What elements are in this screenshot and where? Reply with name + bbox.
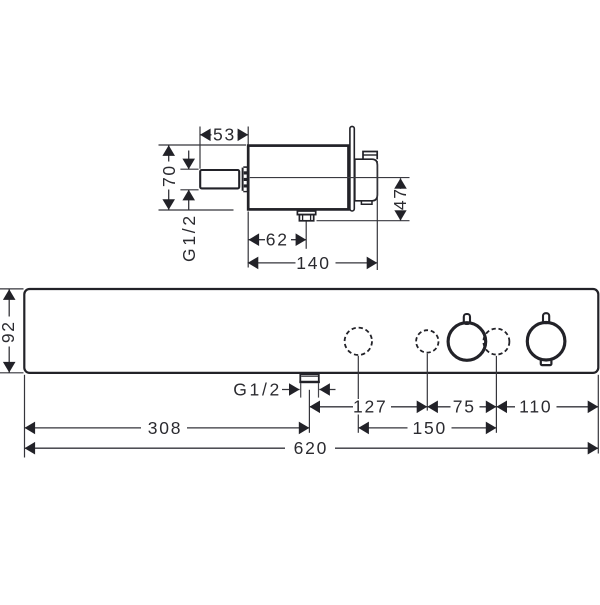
G1/2 label leader left [282,389,300,391]
fitting thread stubs [300,383,302,398]
dim line 53 [200,134,248,136]
arrow 92 top [3,289,16,300]
spout washer line [241,168,243,191]
dimension lines, top drawing [169,135,401,263]
extension lines, top drawing [159,127,378,271]
arrow 62 left [249,233,260,246]
arrow 70 bottom [162,199,175,210]
ext: fitting centerline [308,390,310,433]
G1/2 label leader right [319,389,335,391]
arrow G1/2 right [319,383,330,396]
ext: circle 2 centerline [426,354,428,411]
extension lines, bottom drawing [0,289,598,458]
ext: panel bottom left (92) [0,372,24,374]
knob 5 top tab [543,313,549,323]
dim line 70 [168,145,170,210]
arrow 127 left [309,401,320,414]
svg-text:140: 140 [296,253,331,273]
arrow 70 top [162,145,175,156]
ext: outlet fitting centerline (62 right) [305,222,307,249]
ext: 70 top reference [159,144,247,146]
wall connection block [355,159,378,201]
arrow 75 right [486,401,497,414]
bottom outlet fitting (hand shower connection, side view) [297,211,315,221]
dim row 127/75/110 [309,406,598,408]
dim line 140 [248,262,378,264]
panel (shower tablet front) [24,289,598,373]
svg-text:92: 92 [0,320,18,343]
arrow 308 right [299,422,310,435]
spout nut (notched) [243,166,247,192]
ext: panel right edge down [597,375,599,454]
arrow 620 right [588,442,599,455]
ext: wall block right (140 right) [376,161,378,270]
reference line bottom of outlet fitting [317,220,410,222]
wall connection top nut [363,152,377,160]
ext: panel left edge down [24,375,26,458]
arrow 150 right [486,422,497,435]
arrow spout bottom [182,190,195,201]
ext: circle 1 centerline [357,356,359,433]
arrow 47 top [394,178,407,189]
ext: body left edge up (53 right) [247,127,249,145]
G1/2 fitting (front view, below panel) [299,374,319,382]
spout (side view, G1/2 outlet) [200,170,239,188]
text backgrounds, bottom drawing [1,317,557,456]
knob 3 top tab [464,314,470,324]
ext: spout top short reference [180,168,198,170]
handle knob circle 4 (dashed) [483,329,509,355]
svg-text:70: 70 [159,164,179,187]
svg-text:620: 620 [294,438,329,458]
arrow 92 bottom [3,362,16,373]
dim line 150 [358,427,496,429]
knob 5 bottom tab [541,357,552,366]
svg-text:110: 110 [519,397,552,417]
arrow G1/2 left [289,383,300,396]
svg-text:127: 127 [353,397,388,417]
dim line 62 [249,239,307,241]
centerline through body [250,177,410,179]
arrow 75 left [427,401,438,414]
arrow 140 left [248,257,259,270]
ext: body left edge down (62/140 left) [247,212,249,268]
arrow 127 right [417,401,428,414]
handle knob circle 2 (dashed) [416,330,438,352]
arrow 53 left [200,129,211,142]
body (mixer housing, side view) [248,146,348,210]
handle knob circle 1 (dashed) [345,328,372,355]
arrow 62 right [296,233,307,246]
control knob circle 3 (solid) [448,323,486,361]
dimension lines, bottom drawing [9,289,598,448]
svg-text:G1/2: G1/2 [233,379,282,399]
control knob circle 5 (solid) [527,322,565,360]
text backgrounds, top drawing [161,127,408,271]
arrowheads, bottom drawing [3,289,598,454]
wall plate (escutcheon edge-on) [350,126,354,211]
arrow 620 left [25,442,36,455]
ext: spout tip (53 left) [199,127,201,169]
svg-text:75: 75 [453,397,476,417]
arrow 47 bottom [394,210,407,221]
svg-text:47: 47 [390,187,410,210]
wall connection bottom tab [361,201,372,204]
arrow 110 left [496,401,507,414]
arrowheads, top drawing [162,129,406,270]
arrow 140 right [367,257,378,270]
ext: spout bottom short reference [180,189,198,191]
svg-text:53: 53 [213,125,236,145]
arrow 308 left [25,422,36,435]
svg-text:62: 62 [266,230,289,250]
dim line 308 [25,427,310,429]
dim line spout marker top [188,151,190,170]
ext: circle 4 centerline [495,356,497,433]
svg-text:G1/2: G1/2 [179,213,199,262]
svg-text:308: 308 [148,418,183,438]
svg-text:150: 150 [412,418,447,438]
dim line 47 [400,178,402,220]
dim line 620 [25,447,599,449]
arrow 150 left [358,422,369,435]
arrow 53 right [238,129,249,142]
ext: panel top left (92) [0,288,24,290]
arrow 110 right [588,401,599,414]
arrow spout top [182,159,195,170]
dim line spout marker bottom [188,190,190,211]
dim line 92 [8,289,10,372]
ext: 70 bottom reference [159,209,234,211]
